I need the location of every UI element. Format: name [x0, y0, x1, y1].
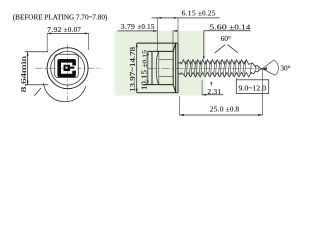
svg-text:13.97~14.78: 13.97~14.78	[128, 47, 137, 92]
svg-text:30°: 30°	[280, 65, 290, 73]
svg-text:6.15 ±0.25: 6.15 ±0.25	[182, 9, 216, 18]
svg-text:5.60 ±0.14: 5.60 ±0.14	[209, 22, 251, 31]
svg-text:25.0 ±0.8: 25.0 ±0.8	[210, 104, 240, 113]
svg-text:3.79 ±0.15: 3.79 ±0.15	[121, 22, 155, 31]
svg-text:60°: 60°	[221, 35, 231, 43]
svg-text:2.31: 2.31	[207, 87, 221, 96]
svg-text:8.64min: 8.64min	[19, 55, 28, 92]
svg-text:(BEFORE PLATING 7.70~7.80): (BEFORE PLATING 7.70~7.80)	[13, 12, 108, 21]
svg-text:7.92 ±0.07: 7.92 ±0.07	[47, 25, 81, 34]
svg-text:9.0~12.0: 9.0~12.0	[239, 84, 267, 93]
